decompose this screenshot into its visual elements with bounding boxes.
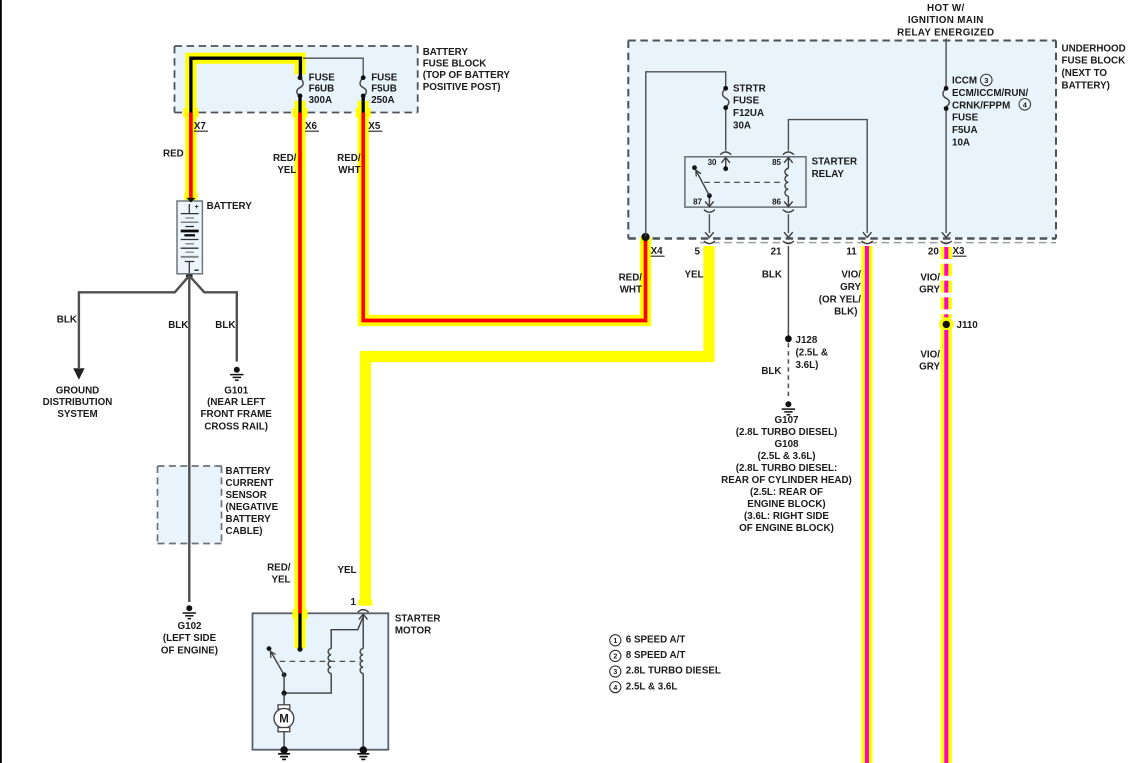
pin20 connector cup X3	[941, 241, 952, 244]
svg-text:STARTER: STARTER	[812, 157, 858, 168]
starter solenoid wiring	[287, 617, 364, 749]
ground G101	[230, 367, 243, 380]
svg-text:FUSE BLOCK: FUSE BLOCK	[1062, 56, 1126, 67]
fuse ICCM F5UA	[943, 74, 1031, 148]
svg-text:J128: J128	[796, 335, 818, 346]
ground G102 label	[161, 621, 218, 656]
wire relay pin85 to pin11	[788, 120, 867, 233]
svg-text:CURRENT: CURRENT	[226, 478, 274, 489]
svg-text:ENGINE BLOCK): ENGINE BLOCK)	[747, 499, 825, 510]
ground G107/G108	[782, 401, 795, 414]
svg-text:WHT: WHT	[620, 285, 642, 296]
svg-text:(OR YEL/: (OR YEL/	[819, 294, 862, 305]
svg-text:YEL: YEL	[271, 575, 290, 586]
svg-text:MOTOR: MOTOR	[395, 626, 431, 637]
svg-text:2.8L TURBO DIESEL: 2.8L TURBO DIESEL	[626, 666, 721, 677]
svg-text:X5: X5	[368, 121, 381, 132]
starter pin1 arrow	[359, 614, 368, 648]
wire relay pin87 to pin5	[708, 214, 710, 233]
wire BLK battery to ground distribution	[79, 276, 189, 368]
wire X4 to STRTR fuse internal	[646, 72, 726, 237]
svg-text:ECM/ICCM/RUN/: ECM/ICCM/RUN/	[952, 88, 1028, 99]
wire HOT feed to ICCM fuse	[945, 39, 947, 89]
svg-text:FUSE: FUSE	[733, 96, 760, 107]
note 3	[610, 666, 721, 677]
pin21 connector cup	[783, 241, 794, 244]
node X4	[641, 233, 649, 241]
svg-text:YEL: YEL	[684, 270, 703, 281]
node X5 label	[368, 121, 382, 132]
note 2	[610, 650, 686, 661]
svg-text:1: 1	[613, 638, 617, 645]
svg-text:(2.5L & 3.6L): (2.5L & 3.6L)	[757, 451, 815, 462]
wire RED X7 to battery	[183, 58, 300, 203]
svg-text:BLK: BLK	[762, 270, 782, 281]
relay pin87 arrow	[705, 198, 714, 207]
svg-text:G101: G101	[224, 385, 249, 396]
svg-text:RED/: RED/	[619, 272, 643, 283]
svg-text:ICCM: ICCM	[952, 76, 977, 87]
svg-text:HOT W/: HOT W/	[927, 3, 964, 14]
svg-text:WHT: WHT	[338, 165, 360, 176]
svg-text:REAR OF CYLINDER HEAD): REAR OF CYLINDER HEAD)	[721, 475, 852, 486]
svg-text:VIO/: VIO/	[920, 272, 940, 283]
svg-text:OF ENGINE): OF ENGINE)	[161, 645, 218, 656]
battery fuse block	[175, 46, 511, 113]
node X4 label	[651, 246, 665, 257]
svg-text:(2.8L TURBO DIESEL:: (2.8L TURBO DIESEL:	[736, 463, 838, 474]
connector pin number labels	[695, 246, 940, 257]
svg-text:GRY: GRY	[840, 282, 861, 293]
svg-text:G108: G108	[775, 439, 800, 450]
relay pin86 connector cup	[783, 210, 794, 213]
wire YEL pin5 to starter pin1	[358, 246, 709, 606]
svg-text:OF ENGINE BLOCK): OF ENGINE BLOCK)	[739, 523, 834, 534]
relay pin87 connector cup	[704, 210, 715, 213]
svg-text:FUSE: FUSE	[309, 72, 336, 83]
starter switch	[267, 646, 287, 696]
pin5 connector cup	[704, 241, 715, 244]
svg-text:20: 20	[928, 246, 939, 257]
svg-text:VIO/: VIO/	[920, 349, 940, 360]
svg-text:F5UB: F5UB	[371, 84, 397, 95]
svg-text:X3: X3	[953, 246, 966, 257]
svg-text:(3.6L: RIGHT SIDE: (3.6L: RIGHT SIDE	[744, 511, 829, 522]
connector row dashed line	[700, 242, 1056, 244]
svg-text:SYSTEM: SYSTEM	[57, 409, 97, 420]
node X3 label	[953, 246, 967, 257]
svg-text:RED/: RED/	[337, 153, 361, 164]
block edge arrow pin21	[784, 232, 793, 237]
svg-text:(LEFT SIDE: (LEFT SIDE	[163, 633, 217, 644]
svg-text:21: 21	[771, 246, 782, 257]
HOT feed label	[897, 3, 994, 39]
svg-text:6 SPEED A/T: 6 SPEED A/T	[626, 635, 686, 646]
svg-text:RED: RED	[163, 148, 184, 159]
svg-text:BLK: BLK	[57, 314, 77, 325]
wire RED/YEL X6 to starter	[293, 96, 308, 652]
block edge arrow pin11	[863, 232, 872, 237]
svg-text:RELAY: RELAY	[812, 169, 845, 180]
ground G107 G108 label	[721, 415, 852, 534]
svg-text:BATTERY): BATTERY)	[1062, 81, 1110, 92]
svg-text:86: 86	[772, 198, 781, 207]
relay internal dashed link	[704, 181, 784, 183]
svg-text:BATTERY: BATTERY	[226, 514, 272, 525]
svg-text:RED/: RED/	[273, 153, 297, 164]
starter wire labels	[267, 563, 356, 608]
svg-text:3.6L): 3.6L)	[796, 360, 819, 371]
wire BLK J128 to G107 dashed	[787, 343, 789, 398]
svg-text:BATTERY: BATTERY	[423, 47, 469, 58]
ground G102	[183, 605, 196, 618]
relay pin30 connector cup	[720, 152, 731, 155]
starter internal dashed link	[280, 660, 360, 662]
svg-text:(2.8L TURBO DIESEL): (2.8L TURBO DIESEL)	[736, 427, 838, 438]
relay switch 30-87	[692, 165, 712, 198]
svg-text:DISTRIBUTION: DISTRIBUTION	[43, 397, 113, 408]
fuse F6UB	[297, 72, 335, 106]
svg-text:STARTER: STARTER	[395, 614, 441, 625]
starter relay box	[685, 157, 857, 208]
svg-text:30: 30	[708, 158, 717, 167]
svg-text:FUSE: FUSE	[952, 113, 979, 124]
svg-text:1: 1	[351, 597, 357, 608]
note 1	[610, 635, 686, 646]
svg-text:FUSE BLOCK: FUSE BLOCK	[423, 59, 487, 70]
ground distribution label	[43, 385, 113, 420]
svg-text:YEL: YEL	[277, 165, 296, 176]
splice J128	[785, 335, 792, 342]
svg-text:CABLE): CABLE)	[226, 526, 263, 537]
relay pin30 arrow	[721, 158, 730, 169]
svg-text:X7: X7	[194, 121, 207, 132]
svg-text:BATTERY: BATTERY	[207, 201, 253, 212]
svg-text:87: 87	[693, 198, 702, 207]
svg-text:STRTR: STRTR	[733, 83, 766, 94]
wire STRTR fuse to relay pin30	[725, 108, 727, 151]
fuse STRTR F12UA	[723, 83, 766, 131]
svg-text:IGNITION MAIN: IGNITION MAIN	[908, 15, 984, 26]
svg-text:CROSS RAIL): CROSS RAIL)	[204, 421, 268, 432]
svg-text:10A: 10A	[952, 138, 970, 149]
relay coil 85-86	[784, 158, 793, 207]
svg-text:SENSOR: SENSOR	[226, 490, 267, 501]
svg-text:+: +	[195, 204, 199, 211]
svg-text:2.5L & 3.6L: 2.5L & 3.6L	[626, 681, 678, 692]
wire link F6UB to F5UB	[303, 58, 363, 77]
svg-text:(NEXT TO: (NEXT TO	[1062, 68, 1108, 79]
block edge arrow pin20	[942, 232, 951, 237]
svg-text:POSITIVE POST): POSITIVE POST)	[423, 82, 501, 93]
svg-text:250A: 250A	[371, 95, 394, 106]
svg-text:F12UA: F12UA	[733, 108, 764, 119]
motor M	[274, 693, 294, 748]
splice J110	[939, 317, 978, 331]
wire relay pin86 to pin21	[787, 214, 789, 233]
battery negative junction	[186, 272, 193, 279]
svg-text:3: 3	[984, 76, 988, 85]
svg-text:F6UB: F6UB	[309, 84, 335, 95]
svg-text:BATTERY: BATTERY	[226, 466, 272, 477]
wire labels below block	[619, 270, 941, 377]
svg-text:GROUND: GROUND	[56, 385, 100, 396]
svg-text:J110: J110	[957, 320, 979, 331]
wire BLK battery to G101	[189, 276, 237, 362]
svg-text:GRY: GRY	[919, 285, 940, 296]
node X6 label	[305, 121, 319, 132]
wire ICCM fuse to pin20	[945, 109, 947, 234]
svg-text:VIO/: VIO/	[841, 270, 861, 281]
svg-text:11: 11	[846, 246, 857, 257]
wire BLK battery to G102	[188, 276, 190, 602]
svg-text:(2.5L &: (2.5L &	[796, 348, 829, 359]
battery B1	[177, 198, 252, 274]
block edge arrow pin5	[705, 232, 714, 237]
node X7 label	[194, 121, 208, 132]
svg-text:G107: G107	[775, 415, 800, 426]
svg-text:4: 4	[613, 685, 617, 692]
svg-text:(TOP OF BATTERY: (TOP OF BATTERY	[423, 70, 511, 81]
svg-text:FUSE: FUSE	[371, 72, 398, 83]
svg-text:85: 85	[772, 158, 781, 167]
arrow ground distribution	[73, 368, 84, 380]
starter ground right	[357, 746, 369, 759]
svg-text:M: M	[279, 714, 289, 726]
wire VIO/GRY J110 down	[941, 330, 952, 763]
pin11 connector cup	[862, 241, 873, 244]
svg-text:GRY: GRY	[919, 362, 940, 373]
svg-text:BLK): BLK)	[834, 307, 857, 318]
fuse F5UB	[360, 72, 398, 106]
wire RED/WHT X5 to X4	[356, 96, 646, 321]
note 4	[610, 681, 678, 692]
svg-text:300A: 300A	[309, 95, 332, 106]
svg-text:X4: X4	[651, 246, 664, 257]
svg-text:(NEGATIVE: (NEGATIVE	[226, 502, 279, 513]
svg-text:(2.5L: REAR OF: (2.5L: REAR OF	[750, 487, 823, 498]
svg-text:UNDERHOOD: UNDERHOOD	[1062, 43, 1126, 54]
starter motor box	[253, 613, 441, 749]
svg-text:RED/: RED/	[267, 563, 291, 574]
svg-text:CRNK/FPPM: CRNK/FPPM	[952, 100, 1010, 111]
svg-text:BLK: BLK	[168, 320, 188, 331]
svg-text:BLK: BLK	[761, 366, 781, 377]
svg-text:RELAY ENERGIZED: RELAY ENERGIZED	[897, 28, 994, 39]
starter pin1 connector cup	[358, 610, 369, 613]
wire VIO/GRY pin11	[861, 246, 872, 763]
svg-text:F5UA: F5UA	[952, 125, 978, 136]
wire VIO/GRY X3 to J110 dashed	[941, 247, 952, 318]
svg-text:YEL: YEL	[337, 565, 356, 576]
battery current sensor	[158, 466, 279, 544]
svg-text:FRONT FRAME: FRONT FRAME	[201, 409, 273, 420]
svg-text:3: 3	[613, 669, 617, 676]
starter ground left	[278, 746, 290, 759]
svg-text:30A: 30A	[733, 121, 751, 132]
wire BLK pin21 to J128	[787, 246, 789, 338]
relay pin85 connector cup	[783, 152, 794, 155]
svg-text:(NEAR LEFT: (NEAR LEFT	[207, 397, 265, 408]
svg-text:5: 5	[695, 246, 701, 257]
svg-text:BLK: BLK	[215, 320, 235, 331]
underhood fuse block	[628, 41, 1125, 239]
svg-text:G102: G102	[178, 621, 203, 632]
svg-text:8 SPEED A/T: 8 SPEED A/T	[626, 650, 686, 661]
svg-text:X6: X6	[305, 121, 318, 132]
svg-text:2: 2	[613, 654, 617, 661]
relay pin labels	[693, 158, 781, 207]
ground G101 label	[201, 385, 273, 432]
